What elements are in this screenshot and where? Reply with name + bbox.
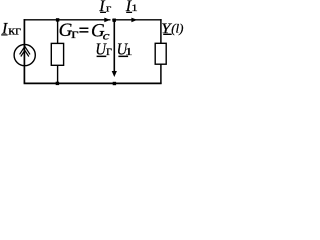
svg-text:г: г: [71, 27, 79, 41]
svg-text:(l): (l): [171, 20, 183, 35]
svg-text:1: 1: [125, 45, 133, 57]
svg-text:1: 1: [131, 4, 137, 14]
svg-text:I: I: [1, 20, 8, 37]
svg-text:г: г: [106, 43, 112, 58]
svg-text:г: г: [106, 3, 112, 14]
svg-text:I: I: [98, 0, 105, 15]
svg-text:кг: кг: [8, 23, 21, 37]
